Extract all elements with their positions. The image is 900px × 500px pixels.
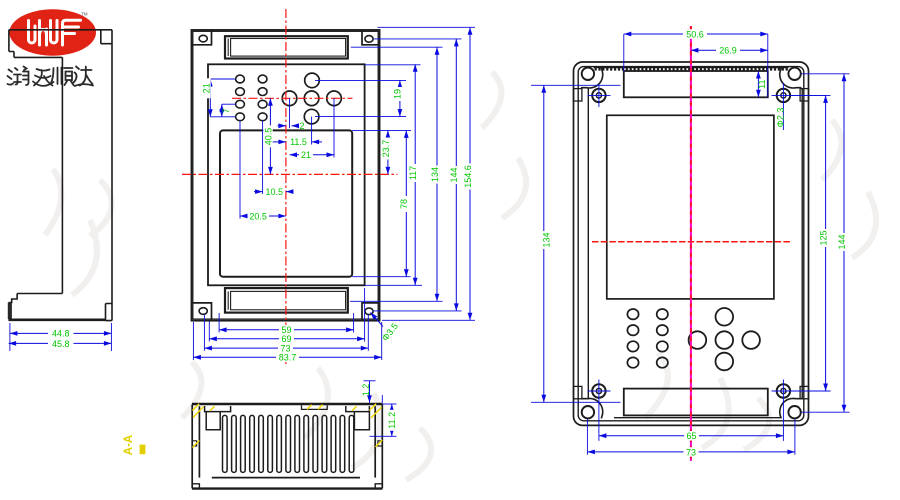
dim 78 [352,130,410,276]
section view hatching [193,404,383,448]
front view corner tab top-left [192,30,212,45]
front view vertical centerline [285,9,287,364]
front view outer rect [192,30,380,321]
rear screw hole bottom-left [592,384,605,397]
screw hole crosshair bottom-right [772,380,826,441]
screw hole crosshair top-left [588,84,611,107]
rear side clip left-bottom [574,386,582,398]
front view bottom slot inner [228,291,345,309]
rear nav button center [716,331,734,349]
svg-text:125: 125 [819,230,829,245]
dim 26.9 [691,46,768,56]
front view nav button right [327,91,342,106]
dim 40.5 [263,98,273,174]
logo letters HUF [29,20,81,45]
rear corner post top-right hole [788,68,800,80]
rear corner post top-left hole [582,68,594,80]
front view horizontal centerline [182,173,398,175]
front view corner tab bottom-right [362,303,380,321]
dim 73 middle [204,315,368,354]
dim 21 vertical left [202,78,236,117]
dim 144 rear [802,74,850,412]
svg-text:44.8: 44.8 [52,329,70,339]
front view key holes grid [236,75,267,121]
svg-text:154.6: 154.6 [463,165,473,188]
dim 125 [790,95,831,391]
svg-text:20.5: 20.5 [249,211,267,221]
dim 134 middle [350,47,443,301]
section view bottom edge [192,487,383,489]
svg-text:134: 134 [430,167,440,182]
front view nav button left [282,91,297,106]
svg-text:11: 11 [757,80,767,89]
watermark faint pattern [45,72,876,480]
rear view outer rounded rect [574,62,809,425]
dim 11.5 [271,117,323,148]
svg-text:Φ2.3: Φ2.3 [775,108,785,128]
dim 20.5 [240,121,286,222]
rear view face side lines [588,88,802,418]
side view outline [9,30,112,321]
label phi2.3 [775,108,785,128]
svg-text:134: 134 [542,232,552,247]
dim 10.5 [254,121,294,197]
dim 23.7 [352,130,411,174]
section view boss left cap [205,406,231,412]
svg-text:144: 144 [837,234,847,249]
screw hole crosshair top-right + phi2.3 leader [772,83,826,130]
logo red ellipse [9,9,96,55]
rear view top slot [624,71,768,97]
rear corner post bottom-left [581,398,603,418]
svg-text:A-A: A-A [123,435,135,455]
svg-text:26.9: 26.9 [719,46,737,56]
section view bottom corner steps [193,484,382,488]
dim 2 [278,98,305,131]
rear side clip right-bottom [800,386,808,398]
dim 69 [209,288,364,344]
rear view inner wall rect [578,67,804,421]
tab hole top-left [199,35,207,42]
section view vent fins [223,415,354,472]
dim 1.2 [361,381,382,403]
svg-text:117: 117 [408,166,418,180]
front view corner tab top-right [362,30,380,45]
dim 45.8 [9,339,112,349]
front view nav button top [305,73,320,88]
side view bottom lip bar [8,303,12,320]
section view center notch [302,405,328,409]
dim 154.6 middle [378,27,476,320]
section view boss right body [354,412,369,430]
svg-text:TM: TM [82,12,89,17]
svg-text:21: 21 [301,150,311,160]
rear corner post bottom-right [780,398,802,418]
rear corner post top-right [780,68,802,88]
section view boss left body [206,412,220,430]
tab hole bottom-left [199,308,207,315]
rear screw hole top-left [592,89,605,102]
logo trademark [82,12,89,17]
rear side clip left-top [574,89,582,101]
dim 21 horizontal [290,98,335,160]
rear view display window [607,115,774,299]
rear nav button right [742,331,760,349]
front view top slot inner [228,39,345,57]
rear horizontal centerline red dashed [592,241,790,243]
dim 7 [221,104,236,117]
company name text (hanzi strokes) [8,67,94,87]
screw hole crosshair bottom-left [588,380,611,441]
svg-text:2: 2 [300,121,305,131]
rear screw hole bottom-right [777,384,790,397]
section view top edge [192,403,383,406]
svg-text:10.5: 10.5 [266,187,284,197]
section view right wall clip [378,441,382,446]
svg-text:1.2: 1.2 [361,384,371,397]
side view bottom edge [8,318,105,321]
tab hole top-right [365,36,373,43]
rear vertical centerline magenta [690,26,692,461]
front view display window [220,130,352,276]
rear corner post bottom-left hole [582,406,594,418]
rear side clip right-top [800,89,808,101]
svg-text:40.5: 40.5 [263,128,273,146]
front view inner panel rect [208,64,365,285]
dim 50.6 [624,29,768,97]
section view boss right cap [346,406,370,412]
front view bottom slot outer [225,288,348,313]
dim 144 middle [373,39,462,311]
front view nav button center [304,91,319,106]
svg-text:144: 144 [449,167,459,182]
svg-text:50.6: 50.6 [686,30,704,40]
rear corner post bottom-right hole [788,406,800,418]
rear view top fins teeth [594,67,789,69]
dim 11.2 [370,404,398,436]
dim 117 [365,64,422,285]
rear nav button bottom [716,353,734,371]
dim 59 [219,313,354,335]
svg-text:65: 65 [686,431,696,441]
svg-text:78: 78 [399,199,409,209]
dim 83.7 [193,322,381,363]
rear screw hole top-right [777,89,790,102]
svg-text:21: 21 [202,83,212,93]
front view top slot outer [225,36,348,58]
dim 65 [599,431,784,441]
rear corner post top-left [581,68,603,88]
svg-text:11.5: 11.5 [290,137,307,147]
svg-text:7: 7 [221,108,231,113]
dim 73 rear [587,419,795,457]
section view left wall clip [192,441,196,446]
front view nav button bottom [304,109,319,124]
rear view bottom slot [624,389,768,416]
rear view key holes grid [627,309,668,368]
svg-text:73: 73 [686,447,696,457]
tab hole bottom-right [365,308,373,315]
svg-text:23.7: 23.7 [381,140,391,158]
rear nav button left [689,331,707,349]
dim 44.8 [10,323,112,351]
svg-text:19: 19 [393,89,403,99]
svg-text:83.7: 83.7 [279,353,297,363]
svg-text:45.8: 45.8 [52,339,70,349]
dim 134 rear [531,85,621,402]
dim phi3.5 leader [371,313,401,343]
front view corner tab bottom-left [192,303,212,321]
rear nav button top [716,308,734,326]
dim 19 [315,80,406,116]
section view outline [192,405,382,489]
front view nav crosshair line [232,97,353,99]
section label A-A [123,435,145,455]
dim 11 rear [757,71,767,97]
front view body rect inner line [193,31,378,319]
svg-text:11.2: 11.2 [387,412,397,429]
